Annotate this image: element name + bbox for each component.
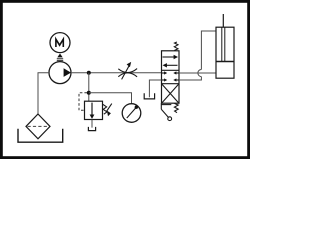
pump P bbox=[49, 62, 71, 84]
valve hand lever with knob bbox=[161, 103, 171, 120]
flow control (adjustable throttle) FC bbox=[118, 62, 137, 80]
relief valve pilot line (dashed) bbox=[79, 93, 87, 111]
tank T2 (relief drain) bbox=[88, 127, 95, 131]
node junction supply branch bbox=[87, 71, 91, 75]
relief valve spring and adjustment arrow bbox=[103, 104, 112, 117]
tank T3 (valve return) bbox=[144, 93, 154, 99]
shaft coupling motor-pump bbox=[57, 54, 63, 61]
wire to pressure gauge bbox=[89, 93, 132, 104]
cylinder C1 bbox=[216, 14, 234, 78]
wire pump outlet supply line bbox=[71, 72, 162, 74]
wire valve B-port to cylinder rod end with crossover hop bbox=[179, 31, 216, 80]
relief valve drain to tank bbox=[91, 120, 93, 128]
pressure relief valve V1 body bbox=[85, 101, 103, 119]
motor label M bbox=[56, 39, 63, 47]
tank T1 bbox=[18, 129, 63, 142]
wire branch down to relief valve bbox=[88, 73, 90, 102]
valve position 2 blocked ports bbox=[162, 71, 180, 81]
directional valve DV 4/3 body bbox=[162, 51, 180, 103]
valve spring top bbox=[174, 42, 178, 51]
valve spring bottom bbox=[174, 103, 178, 112]
valve position 1 arrows bbox=[163, 55, 179, 68]
wire valve A-port to cylinder cap end bbox=[179, 72, 216, 74]
filter F bbox=[26, 114, 50, 139]
wire valve T-port to tank bbox=[149, 80, 161, 97]
electric motor M bbox=[50, 33, 70, 53]
border frame bbox=[1, 1, 248, 157]
valve position 3 crossed arrows bbox=[162, 84, 179, 102]
node junction gauge branch bbox=[87, 91, 91, 95]
wire pump suction to filter bbox=[38, 73, 49, 114]
pressure gauge G bbox=[122, 104, 141, 123]
